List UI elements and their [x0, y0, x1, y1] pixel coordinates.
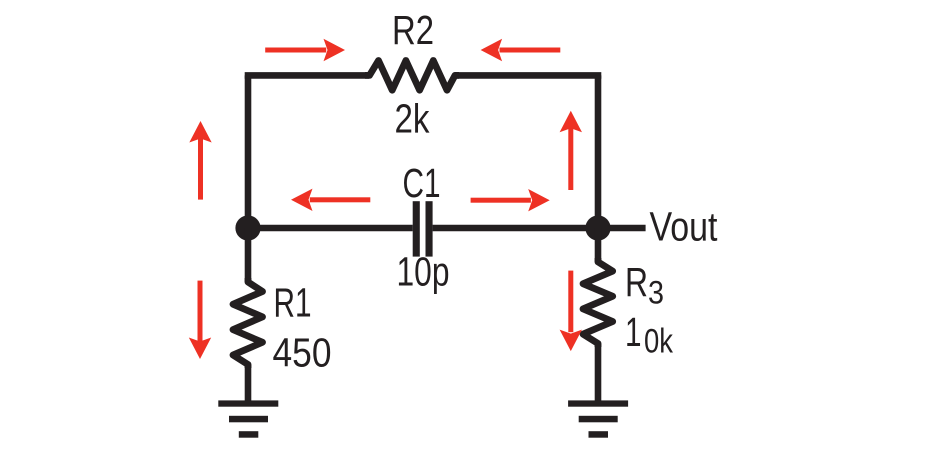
current arrow: top-right, pointing left — [481, 39, 561, 61]
node A (junction dot, left) — [235, 215, 260, 240]
net label Vout — [650, 203, 718, 249]
svg-text:0k: 0k — [644, 323, 674, 361]
label R1 — [274, 280, 312, 326]
svg-text:R2: R2 — [392, 7, 434, 53]
wire: node A down to resistor R1 — [245, 228, 252, 282]
svg-text:1: 1 — [625, 309, 642, 355]
wire: middle rail from node A to capacitor C1 left plate — [248, 225, 413, 232]
current arrow: top-left, pointing right — [265, 39, 345, 61]
value label 450 — [273, 329, 332, 375]
current arrow: middle-right, pointing right — [471, 189, 550, 211]
svg-text:C1: C1 — [403, 160, 441, 206]
wire: resistor R1 to ground — [245, 365, 252, 404]
svg-text:Vout: Vout — [650, 203, 718, 249]
node B (junction dot, right) — [585, 215, 610, 240]
wire: top rail left segment to R2 — [245, 72, 369, 79]
svg-text:2k: 2k — [395, 96, 430, 142]
value label 2k — [395, 96, 430, 142]
value label 10k (1 with subscript 0k) — [625, 309, 674, 361]
wire: left vertical rail from node A up to top rail — [245, 75, 252, 228]
wire: resistor R3 to ground — [595, 344, 602, 404]
current arrow: left branch, pointing down — [189, 281, 211, 359]
ground (left, below R1) — [218, 400, 278, 437]
ground (right, below R3) — [568, 400, 628, 437]
wire: right vertical rail from top rail down to node B — [595, 75, 602, 228]
current arrow: right branch, pointing down — [560, 271, 582, 352]
label R2 — [392, 7, 434, 53]
value label 10p — [397, 249, 450, 295]
label C1 — [403, 160, 441, 206]
current arrow: right rail, pointing up — [560, 111, 582, 190]
svg-text:3: 3 — [648, 275, 664, 311]
svg-text:450: 450 — [273, 329, 332, 375]
resistor R3 — [583, 258, 613, 347]
current arrow: left rail, pointing up — [189, 121, 211, 200]
wire: Vout stub from node B — [598, 225, 646, 232]
current arrow: middle-left, pointing left — [291, 189, 370, 211]
svg-text:10p: 10p — [397, 249, 450, 295]
capacitor C1 — [413, 201, 433, 256]
svg-text:R1: R1 — [274, 280, 312, 326]
label R3 (R with subscript 3) — [625, 259, 664, 311]
wire: middle rail from capacitor C1 right plate to node B — [433, 225, 598, 232]
svg-text:R: R — [625, 259, 648, 305]
wire: node B down to resistor R3 — [595, 228, 602, 262]
wire: top rail right segment from R2 to right rail — [455, 72, 601, 79]
resistor R2 — [365, 61, 459, 91]
resistor R1 — [233, 278, 263, 368]
